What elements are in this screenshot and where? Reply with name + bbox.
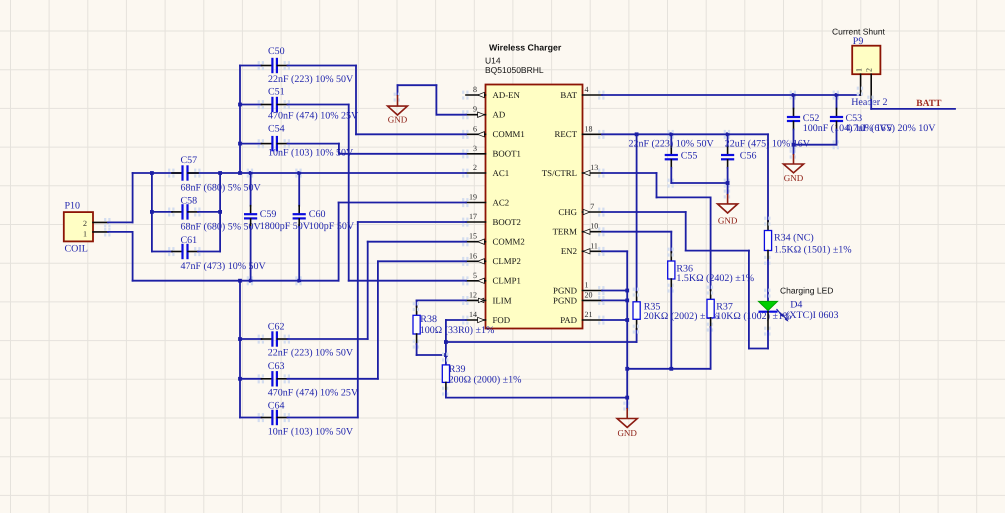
resistor R37 [707,286,792,332]
pin 9 AD (left) [462,105,505,120]
capacitor C52 [787,91,894,150]
wire FOD node to R35 bottom [446,319,637,342]
svg-text:ILIM: ILIM [493,295,512,305]
wire ground rail R36 R37 [627,367,710,371]
svg-text:9: 9 [473,105,477,114]
svg-text:C61: C61 [181,235,198,246]
resistor R35 [633,134,719,333]
capacitor C51 [240,87,359,122]
LED D4 [759,286,839,349]
capacitor C61 [152,235,267,272]
svg-text:20: 20 [585,290,593,299]
svg-text:7: 7 [590,202,594,211]
svg-text:R39: R39 [449,364,466,375]
svg-text:4.7uF (6V5) 20% 10V: 4.7uF (6V5) 20% 10V [846,123,937,134]
wire C63 to CLMP2 pin 16 [288,261,467,379]
wire C54 to BOOT1 pin 3 [288,144,467,154]
pin 17 BOOT2 (left) [462,212,521,227]
svg-text:2: 2 [865,68,874,72]
pin 21 PAD (right) [560,310,604,325]
svg-text:FOD: FOD [493,315,511,325]
svg-text:22nF (223) 10% 50V: 22nF (223) 10% 50V [629,139,715,150]
svg-text:C58: C58 [181,196,198,207]
capacitor C55 [629,130,715,188]
svg-text:COMM2: COMM2 [493,237,525,247]
capacitor C53 [830,91,936,150]
pin 2 AC1 (left) [462,163,509,178]
pin 4 BAT (right) [560,85,604,100]
svg-text:U14: U14 [485,56,501,66]
svg-text:CLMP1: CLMP1 [493,276,521,286]
ground GND (AD pin) [388,93,408,125]
wire PAD pin 21 [602,319,627,321]
svg-text:BOOT1: BOOT1 [493,149,521,159]
wire RECT rail [602,132,768,230]
svg-text:470nF (474) 10% 25V: 470nF (474) 10% 25V [268,111,359,122]
pin 10 TERM (right) [553,222,605,237]
svg-text:BAT: BAT [560,90,577,100]
svg-text:19: 19 [469,193,477,202]
svg-text:GND: GND [617,428,637,438]
svg-text:1800pF 50V: 1800pF 50V [260,221,311,232]
resistor R38 [413,302,495,349]
wire bottom chain left column [238,281,242,418]
IC U14 BQ51050BRHL body [486,85,583,329]
svg-text:18: 18 [585,124,593,133]
svg-text:PAD: PAD [560,315,577,325]
pin 20 PGND (right) [553,290,604,305]
svg-text:21: 21 [585,310,593,319]
svg-text:1.5KΩ (2402) ±1%: 1.5KΩ (2402) ±1% [676,273,754,284]
pin 16 CLMP2 (left) [462,251,521,266]
wire FOD pin 14 down [444,320,466,365]
svg-text:22nF (223) 10% 50V: 22nF (223) 10% 50V [268,74,354,85]
pin 3 BOOT1 (left) [462,144,521,159]
wire R34 to LED anode [767,251,769,302]
svg-text:PGND: PGND [553,295,577,305]
wire C62 to COMM2 pin 15 [288,242,467,339]
wire C52 C53 bottoms join [792,143,837,147]
capacitor C62 [240,322,354,359]
svg-text:470nF (474) 10% 25V: 470nF (474) 10% 25V [268,387,359,398]
svg-text:(XTC)I 0603: (XTC)I 0603 [786,310,839,321]
svg-text:CLMP2: CLMP2 [493,256,521,266]
wire ILIM pin 12 to R38 [417,300,466,315]
svg-text:22nF (223) 10% 50V: 22nF (223) 10% 50V [268,348,354,359]
wire R36 bottom to ground rail [670,279,672,369]
pin 11 EN2 (right) [561,241,605,256]
ground GND (C55 C56) [718,183,738,225]
svg-text:AC1: AC1 [493,168,510,178]
svg-text:12: 12 [469,290,477,299]
wire AC1 rail [133,171,466,175]
capacitor C58 [152,196,262,233]
svg-text:P10: P10 [65,201,81,212]
svg-text:P9: P9 [853,36,864,47]
svg-text:68nF (680) 5% 50V: 68nF (680) 5% 50V [181,182,262,193]
svg-text:1: 1 [83,230,87,239]
wire C51 to CLMP1 pin 5 [288,105,467,281]
wire top chain left column [238,66,242,174]
svg-text:14: 14 [469,310,477,319]
wire P9 pin2 to BATT [871,100,955,109]
svg-text:R34 (NC): R34 (NC) [774,233,814,244]
svg-text:BATT: BATT [916,99,942,109]
wire TERM pin 10 to R36 [602,232,671,261]
connector P10 (COIL) [64,201,111,255]
wire AC2 to pin 19 [339,203,466,281]
svg-text:COMM1: COMM1 [493,129,525,139]
ground GND (C52 C53) [783,145,803,183]
resistor R36 [667,248,754,293]
ground GND (bottom) [617,398,637,438]
svg-text:C50: C50 [268,46,285,57]
svg-text:RECT: RECT [555,129,578,139]
svg-text:Charging LED: Charging LED [780,286,833,296]
wire C64 to BOOT2 pin 17 [288,222,467,418]
svg-text:68nF (680) 5% 50V: 68nF (680) 5% 50V [181,221,262,232]
svg-text:C56: C56 [740,151,757,162]
svg-text:10: 10 [590,222,598,231]
capacitor C64 [240,401,354,438]
svg-text:8: 8 [473,85,477,94]
svg-text:R38: R38 [420,314,437,325]
wire R39 bottom to ground rail [446,382,627,397]
svg-text:15: 15 [469,232,477,241]
svg-text:Wireless Charger: Wireless Charger [489,43,562,53]
wire BAT rail [602,93,861,97]
svg-text:C57: C57 [181,155,198,166]
svg-text:13: 13 [590,163,598,172]
svg-text:4: 4 [585,85,589,94]
wire left cap bank column [150,173,154,252]
wire CHG pin 7 to LED cathode [602,212,768,349]
svg-text:10nF (103) 10% 50V: 10nF (103) 10% 50V [268,427,354,438]
wire AD pin 9 to ground [398,85,467,115]
svg-text:C63: C63 [268,361,285,372]
svg-text:C55: C55 [681,151,698,162]
svg-text:C64: C64 [268,401,285,412]
svg-text:11: 11 [590,241,598,250]
svg-text:17: 17 [469,212,477,221]
svg-text:EN2: EN2 [561,246,577,256]
svg-text:22uF (475) 10% 16V: 22uF (475) 10% 16V [725,139,811,150]
svg-text:16: 16 [469,251,477,260]
svg-text:C59: C59 [260,209,277,220]
pin 1 PGND (right) [553,281,604,296]
wire right cap bank column [218,173,222,252]
svg-text:CHG: CHG [558,207,577,217]
svg-text:AD: AD [493,110,506,120]
svg-text:BOOT2: BOOT2 [493,217,521,227]
pin 19 AC2 (left) [462,193,509,208]
resistor R34 [764,217,852,265]
wire PGND pin 20 [602,299,627,301]
wire TS/CTRL pin 13 to R37 top [602,173,711,299]
wire R37 bottom to ground rail [710,318,712,369]
wire AC2 rail [133,279,339,283]
svg-text:C62: C62 [268,322,285,333]
svg-text:2: 2 [83,219,87,228]
capacitor C54 [240,124,354,159]
svg-text:5: 5 [473,271,477,280]
pin 13 TS/CTRL (right) [542,163,605,178]
pin 5 CLMP1 (left) [462,271,521,286]
svg-text:C54: C54 [268,124,285,135]
capacitor C59 [244,169,311,286]
net label BATT [916,99,942,109]
wire EN2 pin 11 to ground column [602,251,629,399]
svg-text:TS/CTRL: TS/CTRL [542,168,577,178]
svg-text:C51: C51 [268,87,285,98]
svg-text:1.5KΩ (1501) ±1%: 1.5KΩ (1501) ±1% [774,244,852,255]
svg-text:GND: GND [718,215,738,225]
svg-text:C60: C60 [309,209,326,220]
pin 6 COMM1 (left) [462,124,525,139]
wire P10 pin2 to AC1 rail [108,173,133,222]
svg-text:200Ω (2000) ±1%: 200Ω (2000) ±1% [449,375,522,386]
wire C50 to COMM1 pin 6 [288,66,467,135]
pin 18 RECT (right) [555,124,605,139]
svg-text:2: 2 [473,163,477,172]
wire P10 pin1 to AC2 rail [108,232,133,281]
capacitor C60 [293,169,355,286]
svg-text:1: 1 [855,68,864,72]
pin 15 COMM2 (left) [462,232,525,247]
svg-text:TERM: TERM [553,227,578,237]
svg-text:100Ω (33R0) ±1%: 100Ω (33R0) ±1% [420,325,495,336]
pin 7 CHG (right) [558,202,604,217]
capacitor C63 [240,361,359,398]
connector P9 (Current Shunt) [832,27,888,109]
svg-text:COIL: COIL [65,244,88,255]
svg-text:47nF (473) 10% 50V: 47nF (473) 10% 50V [181,261,267,272]
svg-text:GND: GND [388,115,408,125]
svg-text:GND: GND [784,173,804,183]
wire C55 C56 bottoms join [671,181,729,185]
svg-text:AD-EN: AD-EN [493,90,521,100]
pin 14 FOD (left) [462,310,510,325]
svg-text:D4: D4 [790,300,802,311]
pin 8 AD-EN (left) [462,85,520,100]
wire PGND pin 1 [602,290,627,292]
capacitor C57 [168,155,261,193]
capacitor C50 [240,46,354,85]
svg-text:AC2: AC2 [493,197,510,207]
wire R38 bottom to FOD node [417,334,448,357]
capacitor C56 [721,130,811,188]
svg-text:6: 6 [473,124,477,133]
resistor R39 [442,353,522,396]
pin 12 ILIM (left) [462,290,512,305]
svg-text:1: 1 [585,281,589,290]
IC U14 title texts [485,43,562,76]
svg-text:BQ51050BRHL: BQ51050BRHL [485,65,544,75]
svg-text:3: 3 [473,144,477,153]
svg-text:PGND: PGND [553,285,577,295]
